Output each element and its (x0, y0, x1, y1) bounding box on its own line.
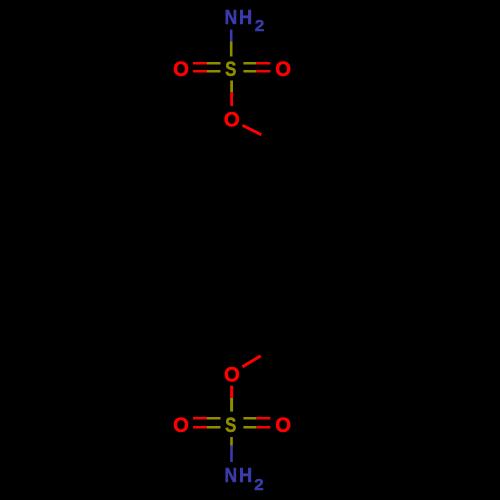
wire: double bond S1=O1 lower line, sulfur half (olive) (207, 70, 221, 73)
wire: double bond S1=O1 lower line, oxygen half (red) (193, 70, 207, 73)
wire: double bond S2=O5 lower line, sulfur half (olive) (207, 426, 221, 429)
svg-text:S: S (225, 58, 236, 81)
svg-text:S: S (225, 414, 236, 437)
svg-text:H: H (239, 465, 252, 487)
wire: double bond S2=O6 upper line, oxygen half (red) (256, 417, 270, 420)
wire: bond O3-C1, oxygen half (red, diagonal down-right) (243, 125, 262, 135)
wire: bond N1-S1, nitrogen half (blue) (230, 30, 233, 42)
svg-text:O: O (173, 414, 189, 437)
wire: bond O4-C4, oxygen half (red, diagonal up-right) (242, 356, 260, 367)
wire: bond S2-N2, sulfur half (olive) (230, 437, 233, 446)
wire: bond S2-N2, nitrogen half (blue) (230, 446, 233, 463)
wire: double bond S1=O2 upper line, sulfur half (olive) (243, 62, 256, 65)
wire: double bond S2=O5 upper line, sulfur half (olive) (207, 417, 221, 420)
wire: double bond S1=O2 lower line, sulfur half (olive) (243, 70, 256, 73)
wire: double bond S1=O1 upper line, sulfur half (olive) (207, 62, 221, 65)
wire: double bond S2=O6 upper line, sulfur half (olive) (243, 417, 256, 420)
wire: double bond S2=O6 lower line, oxygen half (red) (256, 426, 270, 429)
svg-text:N: N (225, 7, 238, 29)
svg-text:O: O (224, 108, 240, 131)
wire: double bond S1=O2 upper line, oxygen half (red) (256, 62, 270, 65)
svg-text:2: 2 (254, 477, 264, 494)
wire: double bond S1=O2 lower line, oxygen half (red) (256, 70, 270, 73)
svg-text:O: O (275, 58, 291, 81)
svg-text:2: 2 (255, 18, 265, 35)
wire: double bond S1=O1 upper line, oxygen half (red) (193, 62, 207, 65)
svg-text:H: H (239, 7, 252, 29)
svg-text:O: O (224, 363, 240, 386)
wire: double bond S2=O5 upper line, oxygen half (red) (193, 417, 207, 420)
wire: bond S1-O3, sulfur half (olive) (230, 81, 233, 93)
wire: double bond S2=O5 lower line, oxygen half (red) (193, 426, 207, 429)
wire: bond N1-S1, sulfur half (olive) (230, 42, 233, 57)
svg-text:O: O (275, 414, 291, 437)
wire: bond O4-S2, oxygen half (red) (230, 386, 233, 398)
wire: bond S1-O3, oxygen half (red) (230, 92, 233, 106)
wire: bond O4-S2, sulfur half (olive) (230, 398, 233, 412)
svg-text:N: N (225, 465, 238, 487)
svg-text:O: O (173, 58, 189, 81)
wire: double bond S2=O6 lower line, sulfur half (olive) (243, 426, 256, 429)
